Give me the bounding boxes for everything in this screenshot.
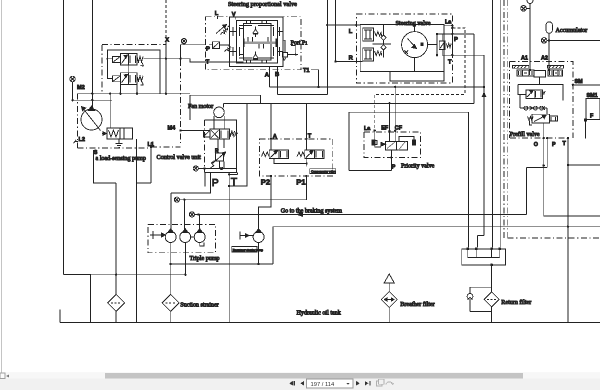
component F box: [586, 99, 600, 120]
svg-text:T: T: [563, 141, 567, 147]
svg-text:La: La: [445, 20, 452, 26]
wire V1 out to right: [144, 59, 206, 62]
prop valve pilot gallery lines: [239, 21, 274, 64]
svg-text:Prefill valve: Prefill valve: [510, 131, 540, 138]
nav page box: [307, 379, 354, 388]
test point A2: [541, 38, 549, 44]
wire emergency pump drop: [258, 243, 260, 265]
wire CF drop: [394, 87, 396, 141]
wire A2 branch right: [549, 39, 600, 41]
pump circle c2: [180, 229, 191, 243]
junction crossover: [306, 163, 308, 165]
tank left upturn: [59, 310, 61, 323]
suspension solenoid hatch right: [548, 65, 564, 68]
svg-text:P: P: [212, 177, 219, 189]
breather filter arrow: [384, 274, 394, 283]
p2p1 dash-dot box: [260, 139, 333, 176]
separator horizontal: [508, 237, 600, 239]
svg-text:L: L: [349, 29, 353, 35]
wire V1 pilot left: [107, 59, 112, 79]
wire c2c3 link: [191, 237, 204, 246]
svg-text:M2: M2: [77, 85, 85, 91]
dash-dot pump box left: [76, 94, 78, 148]
triple pump shaft: [150, 231, 165, 239]
wire P1 down: [184, 176, 306, 200]
junction dots y93.7: [91, 93, 167, 95]
ground symbol under compensator: [116, 139, 123, 148]
junction SM: [572, 84, 574, 86]
wire T internal: [205, 61, 243, 63]
svg-text:A2: A2: [541, 55, 548, 61]
pump circle c1: [165, 229, 176, 243]
prop valve outer body: [230, 17, 284, 67]
prop valve dash-dot box: [205, 17, 300, 70]
svg-text:a load-sensing pump: a load-sensing pump: [96, 156, 146, 162]
wire B to steering L: [278, 94, 328, 96]
wire CV crossover: [274, 159, 307, 167]
wire bus jog: [109, 94, 111, 101]
svg-text:P2: P2: [261, 178, 270, 187]
port P notch: [205, 172, 211, 186]
prop valve port A leg: [269, 67, 271, 87]
junction AB bus: [317, 86, 485, 88]
svg-text:L: L: [215, 11, 219, 17]
wire y100: [73, 99, 112, 101]
scrollbar left button: [0, 373, 9, 379]
dash-dot L1 link: [151, 146, 180, 148]
suction strainer 1: [108, 294, 125, 322]
test point A1: [521, 6, 530, 12]
dashed La pilot path: [375, 28, 465, 131]
junction p2 box: [270, 138, 308, 178]
check poppet upper: [253, 27, 258, 38]
wire steering P exit: [428, 34, 474, 55]
pump case outline: [93, 150, 116, 183]
steering valve dash-dot box: [356, 14, 452, 83]
svg-text:P: P: [206, 46, 210, 52]
junction prefill ports: [543, 137, 570, 139]
suspension valve bank left: [517, 70, 534, 76]
prefill check row: [520, 95, 547, 115]
wire suction bus: [171, 263, 273, 265]
emergency pump shaft: [239, 232, 253, 240]
priority valve body: [381, 137, 414, 151]
svg-text:P: P: [392, 165, 396, 171]
steering relief valve: [439, 34, 451, 55]
port circle top: [527, 0, 533, 4]
prop valve working section: [244, 24, 272, 61]
svg-text:M4: M4: [168, 126, 177, 132]
prop valve spool notches: [248, 37, 268, 49]
prop valve port L: [215, 11, 219, 19]
wire T1 drop: [311, 70, 319, 87]
wire P supply entry: [184, 44, 206, 46]
wire y95 link: [190, 95, 261, 120]
junction La steering: [451, 25, 453, 57]
nav next page button: [356, 381, 360, 386]
wire leg v5: [499, 0, 501, 247]
junction V1 out: [165, 58, 182, 60]
wire M4 link: [181, 130, 205, 132]
junction A2: [548, 39, 550, 41]
prefill main valve: [528, 114, 558, 125]
wire left elbow to tank: [64, 275, 91, 323]
junction steering P: [436, 33, 438, 35]
suspension bank middle block: [534, 71, 546, 85]
junction pilots: [106, 58, 108, 60]
wire leg v3: [483, 55, 485, 235]
prop valve port B leg: [277, 67, 279, 95]
left block right bus: [165, 42, 167, 94]
nav gray icon pages: [377, 379, 385, 386]
svg-text:F: F: [590, 114, 594, 120]
wire c2 drop: [184, 243, 186, 275]
steering bottom loop: [390, 72, 444, 81]
junction bank: [529, 69, 551, 71]
control valve outer frame: [229, 103, 247, 186]
junction manifold: [466, 247, 501, 266]
wire V riser: [235, 17, 237, 20]
wire c2 riser: [183, 200, 185, 232]
wire L1 riser: [150, 143, 152, 183]
wire leg v4: [491, 0, 493, 247]
wire brake line: [199, 213, 527, 215]
wire P2 to emergency pump: [259, 176, 271, 232]
junction P1 line: [183, 199, 185, 201]
svg-text:T: T: [448, 59, 452, 65]
arrowhead brake line: [297, 213, 303, 217]
junction right relief: [295, 54, 297, 56]
fan motor circle: [214, 103, 225, 117]
compensator label box: [310, 169, 337, 174]
prop valve right relief: [283, 40, 298, 60]
svg-text:P1: P1: [296, 178, 306, 187]
compensator valve CV1: [262, 150, 289, 159]
relief valve R box: [211, 152, 226, 168]
breather filter stem: [388, 283, 390, 292]
test point P1 line: [174, 197, 184, 202]
dash-dot boundary mid: [180, 48, 182, 143]
svg-text:A: A: [265, 72, 270, 78]
svg-text:A1: A1: [521, 55, 528, 61]
nav gray icon rotate: [386, 382, 394, 385]
pump a load-sensing: [81, 106, 102, 131]
compensator block right of pump: [102, 128, 133, 139]
svg-text:R: R: [349, 56, 354, 62]
wire A1 leg: [529, 4, 531, 70]
junction La: [374, 129, 397, 132]
wire dashed pilot X: [165, 0, 167, 38]
wire steering L feeder: [327, 0, 360, 95]
svg-text:Control valve unit: Control valve unit: [157, 155, 202, 161]
svg-text:197 / 114: 197 / 114: [311, 382, 336, 388]
solenoid valve V1: [113, 53, 138, 65]
wire pump pilot drop: [109, 100, 111, 128]
pilot spring diag upper-left: [221, 25, 231, 35]
wire P1 leg top: [305, 103, 307, 150]
test point M2: [70, 76, 76, 100]
junction suction dots: [115, 274, 187, 276]
wire La node: [444, 26, 452, 56]
F box port square: [584, 119, 587, 122]
pilot spring diag mid-left: [225, 46, 232, 51]
wire prefill P leg: [546, 138, 548, 167]
scrollbar thumb: [105, 373, 523, 378]
priority valve dash-dot box: [364, 132, 421, 158]
svg-text:L2: L2: [79, 137, 86, 143]
steering shock valve L: [363, 28, 382, 41]
svg-text:Emergency steering pump: Emergency steering pump: [233, 248, 264, 252]
wire T branch right: [568, 164, 600, 166]
tank bottom line: [60, 322, 600, 324]
wire fan valve drops: [218, 139, 224, 169]
solenoid valve V2: [113, 73, 138, 85]
compensator valve CV2: [297, 150, 324, 159]
wire c3 riser: [199, 214, 201, 231]
nav last page button: [365, 381, 371, 386]
left block inner frame: [107, 50, 160, 94]
svg-text:O: O: [534, 142, 538, 148]
svg-text:Triple pump: Triple pump: [190, 256, 220, 262]
wire P outlet to pump c1: [171, 187, 211, 232]
fan valve solenoid: [203, 130, 210, 137]
svg-text:Breather filter: Breather filter: [400, 301, 434, 308]
prop valve spool end bars: [244, 39, 276, 48]
svg-text:Priority valve: Priority valve: [401, 163, 435, 169]
small circle junction: [221, 167, 223, 169]
steering shock valve R: [363, 48, 382, 61]
svg-text:Fan motor: Fan motor: [188, 104, 213, 110]
breather filter diamond: [381, 292, 397, 323]
triple pump dash-dot box: [148, 224, 216, 252]
scrollbar track: [0, 373, 600, 379]
svg-text:Return filter: Return filter: [501, 299, 531, 306]
suspension solenoid hatch left: [513, 65, 529, 68]
left solenoid block dash-dot box: [102, 45, 166, 94]
svg-text:B: B: [275, 72, 279, 78]
junction M4: [179, 129, 181, 131]
wire F drop: [585, 122, 587, 139]
prefill valve stem: [544, 123, 600, 216]
wire main vertical left: [63, 0, 65, 275]
svg-text:Compensator valve: Compensator valve: [311, 170, 336, 174]
priority P leg: [390, 150, 392, 170]
suspension dash-dot box: [510, 62, 573, 139]
svg-text:SM: SM: [575, 79, 584, 85]
spring V2: [137, 76, 144, 86]
check poppet lower: [253, 52, 258, 59]
fan valve body: [210, 129, 229, 139]
wire c1 drop: [170, 243, 172, 295]
junction priority P: [390, 156, 392, 158]
test point above left block: [181, 39, 186, 45]
wire return filter stem: [491, 265, 493, 292]
junction: [71, 99, 93, 101]
steering check column: [373, 25, 391, 58]
priority orifice: [373, 131, 381, 148]
pilot valve small left: [209, 42, 230, 49]
wire prefill to brake line: [526, 167, 547, 214]
wire fan frame: [214, 116, 224, 129]
wire long horizontal suction: [64, 274, 186, 276]
emergency pump label box: [232, 247, 264, 253]
return filter bypass: [467, 287, 492, 311]
wire SM: [573, 84, 600, 86]
wire leg v1: [467, 112, 469, 247]
wire tank box left: [272, 227, 274, 264]
wire L riser: [217, 17, 219, 19]
svg-text:Hydraulic oil tank: Hydraulic oil tank: [297, 310, 342, 316]
test point brake line: [189, 212, 198, 217]
suspension valve bank right: [548, 70, 562, 76]
test point bottom bus: [193, 166, 198, 171]
label L2 with tick: [74, 137, 85, 143]
fan valve spring: [229, 131, 238, 137]
svg-text:P: P: [454, 37, 458, 43]
junction bottom bus: [203, 167, 205, 169]
page left edge: [0, 0, 2, 373]
prefill outer case: [518, 84, 563, 100]
separator dash-dot double: [504, 0, 508, 238]
toolbar background: [0, 373, 600, 390]
wire AB bus: [270, 86, 485, 88]
wire P2 leg top: [270, 103, 272, 150]
steering valve body: [360, 25, 444, 72]
junction L1: [150, 146, 152, 148]
svg-text:Steering valve: Steering valve: [396, 21, 431, 27]
priority frame: [349, 112, 469, 170]
junction brake line: [197, 213, 199, 215]
spring V1: [137, 57, 144, 67]
svg-text:P: P: [552, 142, 556, 148]
dash-dot pump box bottom: [77, 147, 150, 149]
junction T leg: [567, 164, 569, 228]
steering orbital circle: [402, 32, 428, 58]
wire y93.7 long: [77, 93, 189, 95]
suction strainer 2: [162, 294, 179, 322]
junction suction bus: [170, 263, 260, 265]
wire compensator elbow: [136, 139, 151, 323]
svg-text:EF: EF: [381, 126, 389, 132]
flow arrow leg v3: [482, 93, 485, 97]
control valve bottom bus: [199, 167, 237, 169]
accumulator: [546, 22, 587, 34]
wire strainer1 drop: [115, 183, 117, 295]
junction R: [334, 60, 336, 62]
wire testpoint drop: [181, 45, 184, 59]
emergency pump circle: [253, 229, 264, 243]
nav first page button: [289, 381, 295, 386]
svg-text:T: T: [206, 60, 210, 66]
svg-text:Suction strainer: Suction strainer: [180, 302, 218, 308]
prop valve chamber strokes: [230, 27, 284, 56]
wire T to tank: [228, 187, 230, 323]
svg-text:T1: T1: [303, 68, 310, 74]
svg-text:Steering proportional valve: Steering proportional valve: [228, 1, 297, 8]
control valve unit box: [205, 120, 237, 172]
prefill top valve: [518, 84, 545, 98]
nav prev page button: [300, 381, 304, 386]
wire A2 leg: [548, 33, 550, 70]
priority pilot caps: [372, 140, 416, 145]
return filter diamond: [484, 292, 499, 323]
wire steering T exit: [442, 54, 484, 56]
wire fan long line: [223, 102, 474, 104]
steering circle stems: [414, 25, 416, 72]
svg-text:Accumulator: Accumulator: [556, 28, 588, 34]
svg-text:La: La: [364, 126, 371, 132]
wire tank box top: [273, 226, 600, 228]
svg-text:Go to the braking system: Go to the braking system: [281, 208, 343, 214]
pilot arrow upper-left: [216, 25, 227, 34]
wire vertical x92: [91, 0, 93, 109]
prop valve inner body: [237, 21, 278, 64]
wire V1-V2 link: [128, 65, 130, 73]
priority valve feeders EF: [389, 103, 391, 141]
wire steering R feeder: [335, 0, 362, 62]
wire leg v2 steering P riser: [473, 34, 475, 103]
port T notch: [229, 172, 237, 186]
pump circle c3: [194, 229, 205, 243]
junction L: [326, 24, 357, 26]
wire prefill T leg: [567, 138, 569, 322]
prefill dash-dot port line: [510, 137, 565, 139]
manifold block: [462, 249, 506, 265]
prop valve port V: [232, 12, 236, 20]
wire leg v3 jog: [478, 236, 485, 248]
prop valve spool gray: [244, 41, 277, 44]
wire V2 drops: [120, 84, 137, 93]
